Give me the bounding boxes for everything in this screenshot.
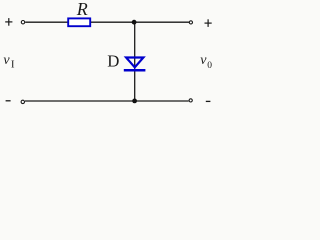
minus sign bottom-right xyxy=(206,100,211,102)
wire top-left (input + to resistor) xyxy=(25,21,67,23)
svg-text:I: I xyxy=(11,59,15,71)
diode D (cathode bar) xyxy=(124,69,146,72)
diode D (triangle) xyxy=(126,58,143,68)
svg-text:R: R xyxy=(76,0,88,19)
wire bottom xyxy=(25,100,189,102)
svg-text:0: 0 xyxy=(207,61,212,71)
terminal top-left xyxy=(21,21,24,24)
terminal top-right xyxy=(189,21,192,24)
plus sign top-right xyxy=(205,19,212,27)
resistor R xyxy=(68,18,90,26)
terminal bottom-right xyxy=(189,99,192,102)
wire vertical (diode branch) xyxy=(134,22,136,101)
plus sign top-left xyxy=(5,18,12,26)
minus sign bottom-left xyxy=(6,100,11,102)
svg-text:v: v xyxy=(3,53,10,68)
svg-text:v: v xyxy=(200,53,207,68)
node junction top xyxy=(132,20,137,25)
terminal bottom-left xyxy=(21,100,24,103)
svg-text:D: D xyxy=(107,52,119,71)
node junction bottom xyxy=(132,99,137,104)
wire top-right (resistor to output +) xyxy=(91,21,189,23)
